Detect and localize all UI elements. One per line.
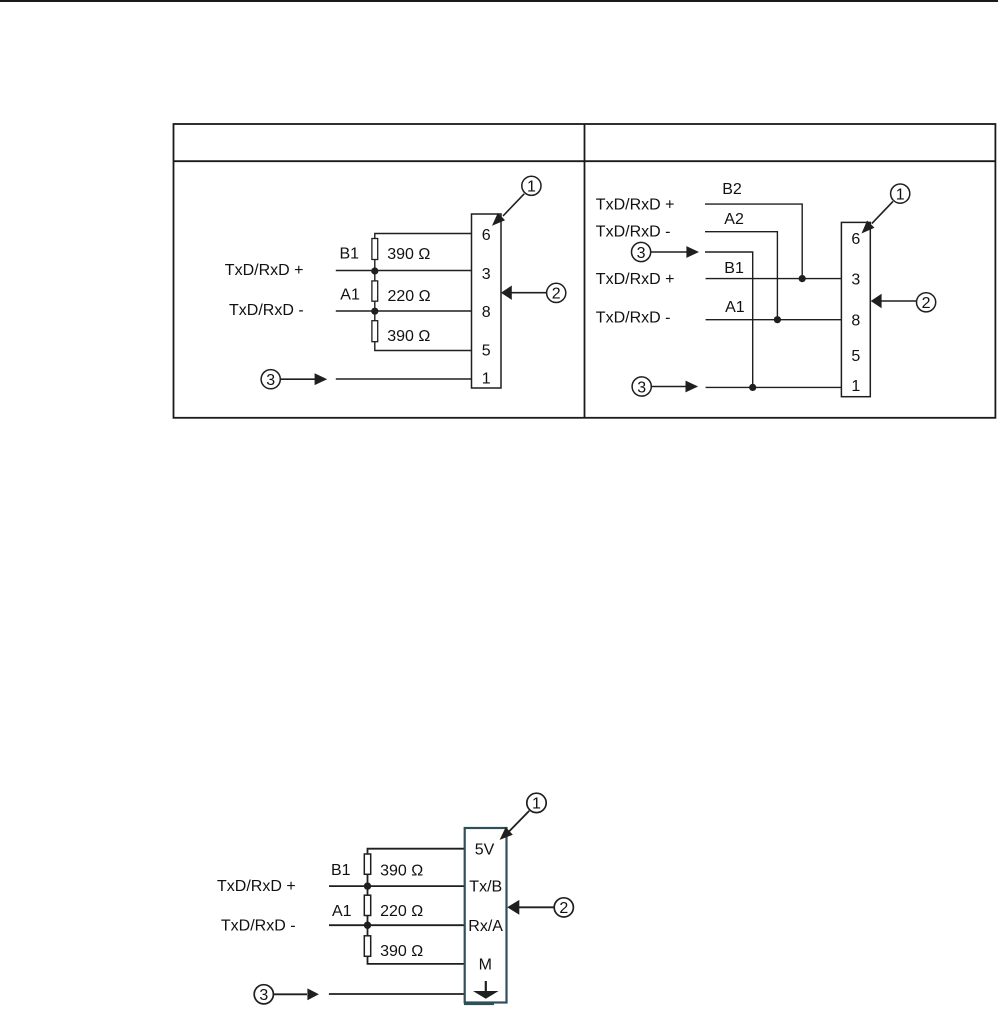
svg-text:3: 3	[259, 987, 268, 1004]
wire shield to ground pin	[329, 993, 465, 995]
callout 2 circle	[917, 293, 936, 312]
wire pin6 top (resistor top to pin 6)	[375, 234, 472, 239]
callout 3 circle lower	[632, 377, 651, 396]
wire shield upper to pin1 net	[705, 252, 753, 387]
svg-text:TxD/RxD +: TxD/RxD +	[596, 196, 675, 213]
svg-text:390 Ω: 390 Ω	[380, 943, 423, 960]
svg-text:Rx/A: Rx/A	[468, 918, 503, 935]
connector U1 body	[472, 214, 502, 388]
svg-text:TxD/RxD -: TxD/RxD -	[229, 302, 304, 319]
wire shield to pin 1	[706, 386, 842, 388]
ground symbol	[473, 981, 499, 999]
svg-text:TxD/RxD +: TxD/RxD +	[596, 271, 675, 288]
svg-text:3: 3	[637, 245, 646, 262]
resistor 220 ohm middle	[372, 281, 378, 301]
svg-text:5: 5	[851, 348, 860, 365]
wire pin5 bottom (resistor bottom to pin 5)	[375, 342, 472, 351]
callout 2 circle	[554, 898, 573, 917]
callout 3 arrow upper	[651, 246, 699, 258]
callout 1 arrow	[488, 194, 524, 230]
wire resistor chain segment 2	[374, 301, 376, 321]
callout 3 circle	[261, 370, 280, 389]
svg-text:B1: B1	[331, 862, 351, 879]
callout 1 circle	[527, 793, 546, 813]
resistor 390 ohm upper	[364, 854, 370, 874]
svg-text:2: 2	[559, 900, 568, 917]
svg-text:A1: A1	[332, 903, 352, 920]
callout 3 arrow lower	[652, 381, 698, 393]
svg-text:B1: B1	[724, 260, 744, 277]
wire TxD/RxD- to pin 8	[336, 310, 472, 312]
junction node B1	[371, 267, 378, 274]
callout 3 circle upper	[632, 242, 651, 261]
svg-text:TxD/RxD +: TxD/RxD +	[217, 878, 296, 895]
svg-text:8: 8	[851, 312, 860, 329]
svg-text:6: 6	[482, 227, 491, 244]
svg-text:8: 8	[482, 304, 491, 321]
wire A1 to pin 8	[706, 319, 842, 321]
wire resistor chain segment 1	[374, 259, 376, 281]
svg-text:Tx/B: Tx/B	[469, 879, 502, 896]
svg-text:2: 2	[552, 286, 561, 303]
connector U3 shadow fragment	[464, 1003, 494, 1005]
callout 2 arrow	[871, 294, 916, 308]
wire B1 to pin 3	[706, 278, 842, 280]
svg-text:B2: B2	[722, 181, 742, 198]
resistor 390 ohm lower	[364, 936, 370, 957]
wire resistor chain segment 2	[367, 916, 369, 936]
svg-text:5V: 5V	[475, 841, 495, 858]
junction node on pin8 wire	[774, 316, 781, 323]
callout 2 arrow	[507, 900, 553, 915]
wire TxD/RxD+ to pin 3	[336, 270, 472, 272]
connector U2 body	[841, 222, 870, 396]
horizontal rule top page border	[0, 0, 998, 2]
wire A2 to pin8 net	[705, 232, 777, 320]
svg-text:TxD/RxD -: TxD/RxD -	[221, 917, 296, 934]
svg-text:5: 5	[482, 343, 491, 360]
junction node on pin3 wire	[799, 275, 806, 282]
callout 3 circle	[254, 985, 273, 1004]
callout 3 arrow	[281, 373, 328, 385]
svg-text:390 Ω: 390 Ω	[380, 863, 423, 880]
connector U3 body	[465, 828, 507, 1003]
callout 2 circle	[547, 283, 566, 302]
svg-text:1: 1	[482, 371, 491, 388]
svg-text:TxD/RxD -: TxD/RxD -	[596, 310, 671, 327]
wire M (resistor bottom to M pin)	[368, 956, 465, 964]
svg-text:TxD/RxD +: TxD/RxD +	[225, 262, 304, 279]
table frame	[174, 124, 996, 418]
svg-text:220 Ω: 220 Ω	[388, 288, 431, 305]
junction node B1	[364, 882, 371, 889]
wire resistor chain segment 1	[367, 874, 369, 895]
wire pin1 (shield)	[336, 378, 472, 380]
callout 2 arrow	[501, 286, 546, 300]
svg-text:1: 1	[851, 378, 860, 395]
svg-text:1: 1	[532, 796, 541, 813]
callout 3 arrow	[274, 988, 319, 1000]
callout 1 circle	[891, 184, 910, 203]
callout 1 circle	[522, 176, 541, 195]
callout 1 arrow	[858, 201, 893, 237]
svg-text:A1: A1	[340, 287, 360, 304]
svg-text:2: 2	[922, 295, 931, 312]
svg-text:3: 3	[482, 266, 491, 283]
junction node A1	[371, 308, 378, 315]
junction node A1	[364, 922, 371, 929]
svg-text:A2: A2	[724, 211, 744, 228]
resistor 390 ohm upper	[372, 239, 378, 260]
svg-text:390 Ω: 390 Ω	[387, 328, 430, 345]
svg-text:220 Ω: 220 Ω	[380, 903, 423, 920]
svg-text:A1: A1	[725, 299, 745, 316]
resistor 390 ohm lower	[372, 321, 378, 342]
svg-text:3: 3	[637, 379, 646, 396]
svg-text:3: 3	[851, 272, 860, 289]
resistor 220 ohm middle	[364, 895, 370, 915]
svg-text:6: 6	[851, 231, 860, 248]
svg-text:1: 1	[527, 179, 536, 196]
wire TxD/RxD- to Rx/A	[329, 924, 465, 926]
wire 5V (resistor top to 5V pin)	[368, 849, 465, 854]
svg-text:M: M	[479, 957, 492, 974]
junction node on pin1 wire	[749, 384, 756, 391]
wire B2 to pin3 net	[705, 204, 802, 279]
svg-text:1: 1	[896, 186, 905, 203]
callout 1 arrow	[496, 811, 529, 844]
wire TxD/RxD+ to Tx/B	[329, 885, 465, 887]
svg-text:3: 3	[266, 372, 275, 389]
svg-text:390 Ω: 390 Ω	[387, 246, 430, 263]
svg-text:TxD/RxD -: TxD/RxD -	[596, 224, 671, 241]
svg-text:B1: B1	[340, 245, 360, 262]
